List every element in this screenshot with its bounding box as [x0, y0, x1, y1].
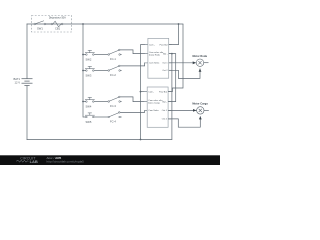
dashed enclosure main switch + breaker	[32, 16, 72, 33]
svg-text:SW1: SW1	[37, 26, 43, 30]
row 3: pushbutton SW4	[85, 97, 95, 102]
wire box2 out2 to motor M2 bottom	[168, 116, 200, 127]
wire com return vertical to box1 pin1 and box2 pin1	[141, 45, 148, 140]
wire bottom rail ground return	[27, 139, 172, 141]
switch SW1	[34, 21, 46, 25]
wire row3 bus to button	[83, 101, 86, 103]
wire row4 button to FC4	[94, 116, 108, 118]
wire pushbutton bus vertical	[82, 24, 84, 117]
row 2: pushbutton SW3	[85, 66, 95, 71]
svg-text:LAB: LAB	[30, 159, 38, 164]
svg-text:Motor Roda: Motor Roda	[192, 54, 207, 58]
svg-text:BAT1: BAT1	[14, 77, 21, 81]
switch FC-2	[108, 65, 122, 71]
motor M1	[196, 59, 208, 66]
wire top rail drop to box2 power	[168, 24, 183, 92]
svg-text:Out 2: Out 2	[162, 69, 168, 72]
switch FC-3	[108, 96, 122, 102]
svg-text:Disjoncteur 50A: Disjoncteur 50A	[49, 17, 66, 20]
wire row2 button to FC2	[94, 70, 108, 72]
arrow into motor M2 bottom	[199, 116, 202, 119]
node com box2 junction	[140, 91, 142, 93]
arrow into motor M1 left	[193, 61, 196, 64]
wire bat- branch down to bottom rail	[171, 54, 173, 140]
node bus row2 junction	[82, 70, 84, 72]
wire left rail battery negative down	[26, 86, 28, 140]
svg-text:Com Selec: Com Selec	[148, 110, 159, 112]
wire row3 FC3 to box2 pin2	[120, 97, 147, 102]
svg-text:Out 1: Out 1	[162, 109, 168, 112]
svg-text:Out 2: Out 2	[162, 118, 168, 121]
wire box2 out1 to motor M2	[168, 109, 196, 111]
battery BAT1	[22, 79, 33, 86]
switch FC-4	[108, 112, 122, 118]
motor M2	[197, 107, 209, 114]
svg-text:FC-2: FC-2	[110, 73, 116, 77]
wire box1 out2 to motor M1 bottom	[169, 69, 200, 79]
svg-text:SW3: SW3	[86, 74, 92, 78]
wire row1 button to FC1	[94, 54, 108, 56]
node top rail to box1 power drop junction	[178, 23, 180, 25]
wire box1 power to top rail	[169, 24, 179, 45]
wire row1 FC1 to box1 pin2	[120, 50, 148, 54]
wire row3 button to FC3	[94, 101, 108, 103]
wire row4 bus to button	[83, 116, 86, 118]
arrow into motor M2 left	[193, 109, 196, 112]
node bus row3 junction	[82, 101, 84, 103]
svg-text:Pow Bat: Pow Bat	[160, 43, 168, 46]
wire row1 bus to button	[83, 54, 86, 56]
svg-text:http://circuitlab.com/c/nqda5: http://circuitlab.com/c/nqda5	[47, 159, 85, 163]
wire box1 bat- to bottom rail and box2 bat-	[168, 54, 176, 102]
banner circuitlab footer	[0, 155, 220, 165]
relay module U1 box	[145, 38, 172, 78]
node bottom rail com junction	[140, 139, 142, 141]
wire com branch to box2 pin1	[141, 91, 148, 93]
svg-text:Pow Bat: Pow Bat	[159, 90, 167, 93]
svg-text:Com -: Com -	[148, 91, 154, 93]
node out2 rail junction	[171, 53, 173, 55]
row 4: pushbutton SW5	[85, 113, 95, 118]
arrow into motor M1 bottom	[199, 69, 202, 72]
svg-text:baixa Roda: baixa Roda	[149, 55, 161, 57]
svg-text:12 V: 12 V	[15, 81, 21, 85]
switch FC-1	[108, 49, 122, 55]
node top rail to bus junction	[82, 23, 84, 25]
circuit breaker CB1 zigzag	[51, 21, 63, 27]
wire SW1 to breaker	[46, 23, 51, 25]
svg-text:Out 1: Out 1	[162, 62, 168, 65]
svg-text:FC-4: FC-4	[110, 119, 116, 123]
wire row4 FC4 to box2 pin3	[120, 110, 147, 112]
svg-text:SW2: SW2	[86, 58, 92, 62]
svg-text:Bat -: Bat -	[162, 100, 167, 103]
svg-text:FC-3: FC-3	[110, 104, 116, 108]
wire left rail battery positive riser	[26, 24, 28, 79]
svg-text:SW5: SW5	[86, 120, 92, 124]
wire row2 FC2 to box1 pin3	[120, 63, 148, 66]
row 1: pushbutton SW2	[85, 50, 95, 55]
svg-text:FC-1: FC-1	[110, 57, 116, 61]
relay module U2 box	[144, 87, 171, 127]
svg-text:SW4: SW4	[86, 105, 92, 109]
svg-text:Com -: Com -	[149, 44, 155, 46]
svg-text:CB1: CB1	[55, 27, 61, 31]
svg-text:Motor Carga: Motor Carga	[192, 102, 208, 106]
svg-text:Bat -: Bat -	[163, 52, 168, 55]
svg-text:baixa Carga: baixa Carga	[148, 103, 160, 105]
wire top rail from battery + through breaker box to right drops	[27, 23, 183, 25]
wire box1 out1 to motor M1	[169, 62, 197, 64]
wire row2 bus to button	[83, 70, 86, 72]
node bus row1 junction	[82, 54, 84, 56]
svg-text:Com Selec: Com Selec	[149, 63, 160, 65]
